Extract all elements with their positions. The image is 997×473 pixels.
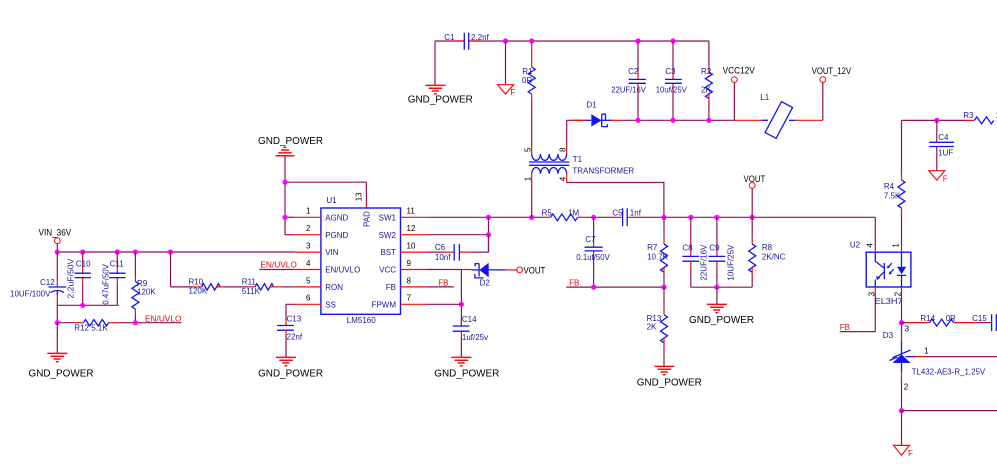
svg-text:F: F	[510, 88, 515, 97]
svg-text:12: 12	[407, 224, 416, 233]
node junction C9 top	[714, 215, 719, 220]
node junction R8 VOUT	[750, 215, 755, 220]
svg-text:120K: 120K	[137, 288, 156, 297]
wire VCC pin9 to C14	[427, 270, 461, 327]
resistor R8 2K/NC	[749, 217, 786, 287]
svg-text:SW2: SW2	[379, 231, 397, 240]
svg-text:1: 1	[524, 176, 533, 181]
svg-text:8: 8	[559, 147, 568, 152]
node junction top wire C2	[635, 38, 640, 43]
node junction R14 D3	[899, 320, 904, 325]
resistor R5 1M	[542, 208, 586, 220]
svg-text:VOUT: VOUT	[744, 174, 766, 184]
power flag F top	[498, 85, 516, 97]
svg-text:7.5K: 7.5K	[884, 192, 901, 201]
ground GND_POWER at C1	[408, 85, 473, 105]
svg-text:GND_POWER: GND_POWER	[258, 369, 323, 380]
svg-text:C7: C7	[585, 235, 596, 244]
svg-text:4: 4	[559, 176, 568, 181]
node junction gnd bus	[714, 285, 719, 290]
svg-text:EL3H7: EL3H7	[875, 297, 904, 306]
LED	[901, 252, 903, 267]
wire top right net R3 C4 R4	[902, 119, 967, 121]
svg-text:D2: D2	[480, 279, 491, 288]
svg-text:R3: R3	[963, 111, 974, 120]
svg-text:C11: C11	[110, 259, 125, 268]
capacitor C7 0.1uf/50V	[576, 217, 610, 287]
node junction D1 row C2	[635, 118, 640, 123]
capacitor C6 10nf	[427, 235, 489, 262]
svg-text:10UF/25V: 10UF/25V	[727, 244, 736, 281]
svg-text:6: 6	[306, 294, 311, 303]
wire SW1 row	[427, 216, 875, 218]
svg-text:EN/UVLO: EN/UVLO	[260, 261, 296, 270]
svg-text:0.1uf/50V: 0.1uf/50V	[576, 253, 610, 262]
svg-text:U2: U2	[850, 241, 861, 250]
wire C12 to ground	[56, 323, 58, 353]
svg-text:5: 5	[306, 276, 311, 285]
svg-text:R2: R2	[701, 67, 712, 76]
ground GND_POWER at R13	[637, 366, 702, 388]
svg-text:FPWM: FPWM	[372, 300, 397, 309]
node junction C7 top	[591, 215, 596, 220]
inductor L1	[734, 93, 822, 139]
capacitor C14 1uf/25v	[453, 315, 488, 357]
svg-text:1uf/25v: 1uf/25v	[462, 333, 488, 342]
power flag F bottom	[894, 445, 914, 458]
node junction R12 left	[55, 320, 60, 325]
diode D2 to VOUT	[461, 263, 516, 288]
svg-text:F: F	[943, 174, 948, 183]
svg-text:2K/NC: 2K/NC	[762, 252, 786, 261]
svg-text:BST: BST	[380, 248, 396, 257]
light arrows	[888, 263, 894, 274]
svg-text:511K: 511K	[242, 287, 261, 296]
phototransistor	[875, 252, 884, 287]
svg-text:120K: 120K	[189, 286, 208, 295]
capacitor C2	[611, 41, 646, 120]
svg-text:7: 7	[407, 294, 412, 303]
node junction FPWM VCC	[459, 302, 464, 307]
svg-text:R5: R5	[542, 208, 553, 217]
svg-text:R4: R4	[884, 182, 895, 191]
svg-text:C5: C5	[612, 208, 623, 217]
svg-text:L1: L1	[760, 93, 769, 102]
wire top net C1 to R2 corner	[435, 41, 709, 67]
wire between R10 R11	[225, 286, 248, 288]
svg-text:EN/UVLO: EN/UVLO	[145, 315, 181, 324]
svg-text:8: 8	[407, 276, 412, 285]
svg-text:D3: D3	[883, 331, 894, 340]
optocoupler U2 EL3H7	[850, 241, 911, 306]
wire D1 anode	[567, 119, 586, 121]
node junction FB R7	[661, 285, 666, 290]
svg-text:FB: FB	[386, 283, 396, 292]
svg-text:FB: FB	[569, 279, 579, 288]
wire FPWM pin7	[427, 303, 461, 305]
resistor R2 2K	[701, 67, 712, 121]
node junction D1 row R2	[706, 118, 711, 123]
node junction R7 row	[661, 215, 666, 220]
svg-text:VIN_36V: VIN_36V	[39, 227, 72, 237]
node junction top wire C3	[670, 38, 675, 43]
svg-text:3: 3	[306, 242, 311, 251]
svg-text:C14: C14	[462, 315, 477, 324]
svg-text:F: F	[908, 449, 913, 458]
shunt regulator D3 TL432	[883, 323, 997, 411]
svg-text:C13: C13	[287, 315, 302, 324]
svg-text:PAD: PAD	[362, 211, 371, 227]
svg-text:GND_POWER: GND_POWER	[637, 378, 702, 389]
svg-text:EN/UVLO: EN/UVLO	[325, 266, 360, 275]
capacitor C13 22nf	[277, 315, 303, 358]
wire to gnd	[716, 287, 718, 304]
diode D1 schottky	[571, 101, 621, 127]
svg-text:1M: 1M	[568, 208, 579, 217]
ground GND_POWER at C13	[258, 357, 323, 379]
svg-text:1nf: 1nf	[630, 208, 642, 217]
node junction SW2	[486, 232, 491, 237]
svg-text:10uf/25V: 10uf/25V	[656, 86, 688, 95]
svg-text:VCC: VCC	[379, 266, 396, 275]
svg-text:R8: R8	[762, 243, 773, 252]
capacitor C10 2.2uF/50V	[67, 252, 92, 305]
svg-text:R1: R1	[522, 67, 533, 76]
svg-text:C9: C9	[709, 244, 720, 253]
power pin VCC12V	[723, 65, 755, 120]
wire gnd to pad and pin1 pin2	[285, 156, 366, 234]
resistor R4 7.5K	[884, 120, 905, 246]
net label EN/UVLO pin4	[259, 261, 296, 270]
svg-text:GND_POWER: GND_POWER	[258, 136, 323, 147]
svg-text:10.7K: 10.7K	[647, 252, 669, 261]
capacitor C12 10UF/100V	[10, 252, 66, 323]
svg-text:4: 4	[865, 243, 874, 248]
svg-text:C12: C12	[40, 278, 55, 287]
svg-text:C15: C15	[972, 314, 987, 323]
svg-text:PGND: PGND	[325, 231, 348, 240]
svg-text:LM5160: LM5160	[347, 316, 376, 325]
capacitor C9 10UF/25V	[709, 217, 736, 287]
svg-text:C6: C6	[435, 243, 446, 252]
svg-text:10: 10	[407, 242, 416, 251]
svg-text:10nf: 10nf	[435, 253, 451, 262]
node junction SW1 transformer pin1	[529, 215, 534, 220]
svg-text:C3: C3	[665, 67, 676, 76]
svg-text:1: 1	[924, 347, 929, 356]
node junction C8 top	[688, 215, 693, 220]
node junction C4	[934, 118, 939, 123]
svg-text:1: 1	[306, 207, 311, 216]
svg-text:2.2uF/50V: 2.2uF/50V	[67, 258, 76, 299]
svg-text:D1: D1	[586, 101, 597, 110]
svg-text:0R: 0R	[522, 76, 532, 85]
wire U2 pin3 to FB	[840, 294, 876, 332]
svg-text:FB: FB	[840, 323, 850, 332]
wire FB row	[566, 286, 664, 288]
node junction D3 anode	[899, 408, 904, 413]
svg-text:13: 13	[355, 192, 364, 201]
wire to F flag	[505, 41, 507, 84]
svg-text:4: 4	[306, 259, 311, 268]
op-amp U1 LM5160	[294, 192, 427, 325]
capacitor C11 0.47uF/50V	[101, 252, 125, 305]
svg-text:C10: C10	[76, 259, 91, 268]
svg-text:10UF/100V: 10UF/100V	[10, 289, 51, 298]
wire VIN row to RON row	[171, 252, 194, 287]
svg-text:C1: C1	[444, 33, 455, 42]
svg-text:1: 1	[891, 243, 900, 248]
ground GND_POWER bottom left	[29, 353, 94, 379]
resistor R9 120K	[132, 252, 156, 323]
svg-text:11: 11	[407, 207, 416, 216]
wire SS to C13	[286, 304, 294, 320]
wire transformer pin4 return	[567, 182, 664, 218]
resistor R14 0R	[902, 314, 992, 326]
svg-text:2.2nf: 2.2nf	[471, 33, 490, 42]
transformer T1	[524, 147, 635, 182]
node junctions VIN row	[55, 249, 60, 254]
capacitor C15	[972, 314, 996, 331]
node junction pin1	[282, 215, 287, 220]
resistor R12 5.1K	[74, 320, 119, 333]
wire D1 row to VCC12V node	[621, 119, 735, 121]
wire C10 C11 bottom bus	[57, 304, 119, 306]
svg-text:2: 2	[904, 382, 909, 391]
svg-text:VCC12V: VCC12V	[723, 65, 755, 75]
svg-text:2: 2	[306, 224, 311, 233]
node junction C10 bottom	[80, 303, 85, 308]
svg-text:TRANSFORMER: TRANSFORMER	[572, 167, 634, 176]
svg-text:RON: RON	[325, 283, 343, 292]
svg-text:2K: 2K	[647, 323, 657, 332]
node junction top wire F-flag	[503, 38, 508, 43]
resistor R1 0R	[522, 41, 535, 101]
svg-text:22nf: 22nf	[287, 333, 303, 342]
wire to F flag bottom	[901, 411, 903, 445]
resistor R13 2K	[647, 287, 668, 366]
svg-text:GND_POWER: GND_POWER	[434, 369, 499, 380]
svg-text:T1: T1	[573, 155, 583, 164]
wire C8 C9 R8 ground bus	[691, 286, 752, 288]
wire transformer pin8 up to D1 row	[566, 120, 568, 146]
svg-text:1UF: 1UF	[938, 148, 953, 157]
wire R1 to transformer pin5	[531, 101, 533, 147]
capacitor C3	[656, 41, 688, 120]
svg-text:TL432-AE3-R_1.25V: TL432-AE3-R_1.25V	[912, 367, 986, 376]
pin stubs right	[401, 217, 428, 304]
resistor R11 511K	[242, 278, 284, 296]
capacitor C1	[444, 33, 489, 50]
svg-text:R12 5.1K: R12 5.1K	[74, 323, 108, 332]
wire SW1 row to U2 pin4	[874, 217, 876, 246]
net label FB pin8	[427, 279, 454, 288]
power flag F at C4	[929, 171, 948, 184]
svg-text:22UF/16V: 22UF/16V	[700, 244, 709, 281]
capacitor C5 1nf	[612, 208, 641, 226]
node junction R12 right R9	[133, 320, 138, 325]
svg-text:0.47uF/50V: 0.47uF/50V	[101, 263, 110, 304]
svg-text:AGND: AGND	[325, 213, 348, 222]
wire D3 anode row	[902, 410, 997, 412]
svg-text:SS: SS	[325, 300, 336, 309]
power pin VOUT_12V	[812, 66, 851, 120]
ground GND_POWER at C14	[434, 357, 499, 379]
node junction SW1 SW2 link	[486, 215, 491, 220]
svg-text:C4: C4	[938, 133, 949, 142]
svg-text:R10: R10	[189, 278, 204, 287]
pin stubs left	[294, 217, 321, 304]
svg-text:SW1: SW1	[379, 213, 397, 222]
svg-text:FB: FB	[438, 279, 448, 288]
node junction gnd wire	[282, 180, 287, 185]
capacitor C8 22UF/16V	[682, 217, 708, 287]
node junction D1 row C3	[670, 118, 675, 123]
wire SW2 row	[427, 217, 489, 252]
wire U2 pin2 down	[901, 294, 903, 323]
wire R11 to RON pin	[284, 286, 295, 288]
svg-text:3: 3	[905, 325, 910, 334]
svg-text:VIN: VIN	[325, 248, 339, 257]
svg-text:VOUT: VOUT	[524, 265, 546, 275]
svg-text:5: 5	[524, 147, 533, 152]
svg-text:R14: R14	[920, 314, 935, 323]
resistor R10 120K	[189, 278, 225, 296]
svg-text:VOUT_12V: VOUT_12V	[812, 66, 851, 76]
node junction top wire R1	[529, 38, 534, 43]
svg-text:9: 9	[407, 259, 412, 268]
svg-text:C8: C8	[682, 244, 693, 253]
ground GND_POWER above U1 (inverted)	[258, 136, 323, 156]
svg-text:2K: 2K	[701, 86, 711, 95]
power pin VOUT at D2	[517, 265, 546, 275]
wire transformer pin1 down	[531, 182, 533, 218]
svg-text:R11: R11	[242, 278, 257, 287]
wire C1 ground drop	[434, 41, 436, 85]
wire R12 row	[57, 322, 181, 324]
svg-text:22UF/16V: 22UF/16V	[611, 86, 646, 95]
power pin VOUT	[744, 174, 766, 217]
svg-text:R7: R7	[647, 243, 658, 252]
svg-text:GND_POWER: GND_POWER	[689, 315, 754, 326]
power pin VIN_36V	[39, 227, 72, 252]
node junction FB C7	[591, 285, 596, 290]
svg-text:C2: C2	[628, 67, 639, 76]
resistor R3	[963, 111, 997, 124]
capacitor C4	[929, 120, 954, 170]
resistor R7 10.7K	[647, 217, 669, 287]
svg-text:GND_POWER: GND_POWER	[29, 369, 94, 380]
svg-text:GND_POWER: GND_POWER	[408, 95, 473, 106]
ground GND_POWER at C8 C9	[689, 304, 754, 326]
wire VIN row	[57, 251, 294, 253]
svg-text:0R: 0R	[946, 314, 956, 323]
svg-text:U1: U1	[326, 196, 337, 205]
